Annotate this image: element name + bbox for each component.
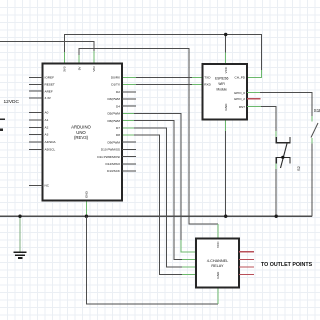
relay output wires to outlets (red)	[239, 252, 254, 275]
wire pushbutton S2 down to bus	[275, 164, 277, 217]
wire VIN net: battery + to arduino top pin VIN	[0, 42, 94, 64]
wire ESP GPIO_2 red stub	[247, 98, 261, 100]
switch S1 blade	[311, 123, 318, 138]
svg-text:VIN: VIN	[92, 67, 96, 72]
svg-text:TO OUTLET POINTS: TO OUTLET POINTS	[261, 262, 313, 268]
svg-text:VCC: VCC	[216, 241, 220, 248]
svg-text:A3: A3	[45, 133, 49, 137]
ground symbol	[14, 252, 27, 257]
svg-text:GPIO_2: GPIO_2	[234, 97, 245, 101]
pushbutton S2	[276, 137, 290, 168]
svg-text:IOREF: IOREF	[45, 76, 55, 80]
svg-text:ESP8266: ESP8266	[215, 77, 229, 81]
svg-text:A2: A2	[45, 126, 49, 130]
wire 5V net: arduino top pin2 to relay VCC	[79, 49, 218, 239]
wire relay GND return to bus	[86, 216, 217, 304]
svg-text:A0: A0	[45, 111, 49, 115]
svg-text:GND: GND	[85, 190, 89, 198]
svg-text:3.3V: 3.3V	[45, 96, 52, 100]
arduino right pin stubs D9-D13	[122, 142, 136, 171]
junction dot at ESP VCC tap	[224, 33, 227, 36]
svg-text:D5(PWM: D5(PWM	[107, 112, 120, 116]
wire D8 to relay IN4	[122, 135, 196, 274]
svg-text:D9(PWM: D9(PWM	[107, 140, 120, 144]
arduino left pin stubs IOREF RESET AREF 3.3V	[29, 78, 43, 99]
svg-text:RST: RST	[239, 105, 245, 109]
svg-text:3V3: 3V3	[63, 66, 67, 72]
ESP right pin labels	[234, 76, 246, 109]
junction dot arduino GND on bus	[85, 215, 88, 218]
wire ESP VCC tap	[225, 35, 227, 65]
svg-text:RXD: RXD	[204, 83, 211, 87]
arduino top pin labels 3V3 5V VIN	[63, 66, 96, 72]
svg-text:(REV3): (REV3)	[74, 135, 89, 140]
wire D6 to relay IN2	[122, 121, 196, 260]
svg-text:GND: GND	[216, 271, 220, 279]
arduino left pin labels	[45, 76, 57, 188]
svg-text:D6(PWM: D6(PWM	[107, 119, 120, 123]
relay K1 4-channel	[196, 239, 239, 288]
wire ESP GPIO_0 to switch S1	[247, 93, 312, 122]
arduino right pin labels	[97, 76, 121, 174]
arduino U1	[43, 64, 123, 201]
svg-text:D1/TX: D1/TX	[111, 83, 120, 87]
wire D1/TX to ESP RXD	[122, 83, 203, 85]
svg-text:CH_PD: CH_PD	[235, 76, 246, 80]
svg-text:TXD: TXD	[204, 76, 211, 80]
svg-text:NC: NC	[45, 184, 50, 188]
svg-text:4-CHANNEL: 4-CHANNEL	[207, 259, 229, 263]
svg-text:S2: S2	[296, 165, 301, 171]
wire ground symbol tap	[19, 216, 21, 251]
svg-text:D3(PWM: D3(PWM	[107, 97, 120, 101]
svg-text:RELAY: RELAY	[211, 264, 224, 268]
pushbutton S2 actuator dot	[281, 156, 284, 159]
wire D7 to relay IN3	[122, 128, 196, 267]
svg-text:S1B: S1B	[314, 108, 320, 113]
ESP center label	[215, 77, 229, 92]
wire 3V3 net: arduino top pin1 to ESP CH_PD	[64, 35, 261, 78]
svg-text:WIFI: WIFI	[218, 82, 225, 86]
wire D0/RX to ESP TXD	[122, 76, 203, 78]
arduino left pin stubs A0-A5	[29, 113, 43, 150]
arduino center label	[71, 125, 91, 140]
wire ESP RST to pushbutton S2	[247, 107, 276, 137]
junction dot ground tap on bus	[18, 215, 21, 218]
junction dot ESP GND on bus	[224, 215, 227, 218]
arduino left pin stub NC	[29, 184, 43, 186]
ESP left pin labels TXD RXD	[204, 76, 211, 87]
svg-text:12VDC: 12VDC	[4, 99, 20, 105]
relay center label	[207, 259, 229, 268]
svg-text:A1: A1	[45, 118, 49, 122]
arduino right pin stubs D2 D3 D4	[122, 92, 136, 106]
svg-text:A4/SDA: A4/SDA	[45, 140, 57, 144]
wire D5 to relay IN1	[122, 113, 196, 251]
wire ESP GND down to bus	[225, 119, 227, 216]
svg-text:D13/SCK: D13/SCK	[107, 169, 121, 173]
svg-text:D2: D2	[116, 90, 120, 94]
svg-text:D4: D4	[116, 104, 120, 108]
svg-text:D12/MISO: D12/MISO	[106, 162, 121, 166]
svg-text:RESET: RESET	[45, 83, 55, 87]
junction dot pushbutton on bus	[275, 215, 278, 218]
svg-text:GND: GND	[224, 103, 228, 111]
svg-text:A5/SCL: A5/SCL	[45, 148, 56, 152]
ground bus wire	[0, 215, 312, 217]
svg-text:GPIO_0: GPIO_0	[234, 91, 245, 95]
wire arduino GND down to bus	[85, 201, 87, 217]
svg-text:D8: D8	[116, 133, 120, 137]
svg-text:D0/RX: D0/RX	[111, 76, 120, 80]
switch S1 lower terminal and wire down to bus	[311, 138, 313, 216]
svg-text:D11 PWM/MOSI: D11 PWM/MOSI	[97, 155, 120, 159]
svg-text:Module: Module	[216, 88, 227, 92]
svg-text:D10 PWM/SS: D10 PWM/SS	[101, 148, 120, 152]
battery BT1 12VDC (plates at left edge)	[0, 119, 5, 129]
svg-text:VCC: VCC	[224, 66, 228, 73]
svg-text:AREF: AREF	[45, 89, 53, 93]
svg-text:D7: D7	[116, 126, 120, 130]
ESP8266 module U2	[203, 64, 247, 119]
